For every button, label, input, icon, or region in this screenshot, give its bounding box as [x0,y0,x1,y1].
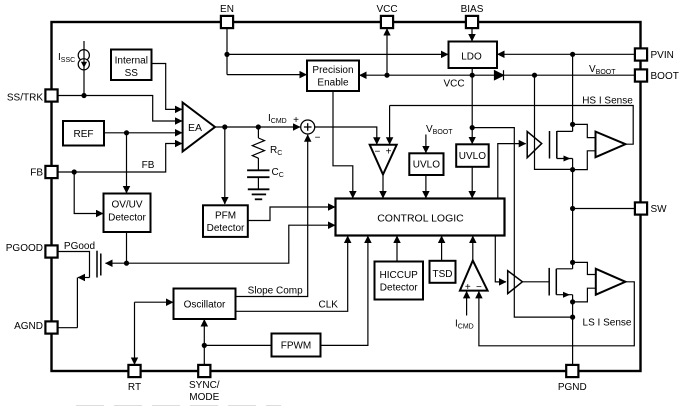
svg-text:MODE: MODE [189,392,219,403]
svg-text:VCC: VCC [376,4,397,15]
svg-text:Internal: Internal [115,56,148,67]
svg-text:VCC: VCC [443,79,464,90]
svg-text:RC: RC [270,145,282,157]
svg-text:LS I Sense: LS I Sense [583,318,632,329]
svg-text:ICMD: ICMD [455,319,474,331]
svg-text:Detector: Detector [207,223,245,234]
svg-text:SS/TRK: SS/TRK [7,92,43,103]
svg-text:Detector: Detector [380,283,418,294]
svg-text:REF: REF [74,129,94,140]
svg-text:−: − [476,282,482,293]
svg-text:EN: EN [220,4,234,15]
svg-text:+: + [465,282,471,293]
svg-text:Enable: Enable [317,78,349,89]
svg-text:SW: SW [651,204,668,215]
svg-text:PFM: PFM [215,211,236,222]
svg-text:PGND: PGND [558,382,587,393]
svg-text:SS: SS [125,68,139,79]
svg-text:VBOOT: VBOOT [426,124,453,136]
svg-text:BIAS: BIAS [461,4,484,15]
svg-text:HICCUP: HICCUP [380,270,419,281]
svg-text:PVIN: PVIN [651,50,674,61]
svg-text:Precision: Precision [312,65,353,76]
svg-text:TSD: TSD [433,269,453,280]
svg-text:Detector: Detector [108,213,146,224]
svg-text:ISSC: ISSC [58,52,75,64]
svg-text:CONTROL LOGIC: CONTROL LOGIC [377,213,464,225]
svg-text:EA: EA [188,122,202,134]
svg-text:Slope Comp: Slope Comp [248,286,303,297]
svg-text:+: + [386,146,392,157]
svg-text:BOOT: BOOT [651,71,679,82]
svg-text:Oscillator: Oscillator [184,300,226,311]
svg-text:CLK: CLK [318,300,338,311]
svg-text:UVLO: UVLO [459,151,486,162]
svg-text:FB: FB [30,168,43,179]
svg-text:VBOOT: VBOOT [589,64,616,76]
svg-text:FB: FB [142,160,155,171]
svg-text:−: − [374,146,380,157]
svg-text:RT: RT [128,382,141,393]
svg-text:PGOOD: PGOOD [6,243,43,254]
svg-text:HS I Sense: HS I Sense [582,96,633,107]
svg-text:AGND: AGND [14,321,43,332]
svg-text:FPWM: FPWM [281,341,312,352]
svg-text:OV/UV: OV/UV [111,200,142,211]
svg-text:−: − [315,133,321,144]
svg-text:LDO: LDO [461,52,482,63]
svg-text:+: + [293,115,299,126]
svg-text:ICMD: ICMD [268,113,287,125]
svg-text:UVLO: UVLO [413,160,440,171]
svg-text:PGood: PGood [64,241,95,252]
svg-text:CC: CC [272,167,284,179]
svg-text:SYNC/: SYNC/ [189,380,220,391]
